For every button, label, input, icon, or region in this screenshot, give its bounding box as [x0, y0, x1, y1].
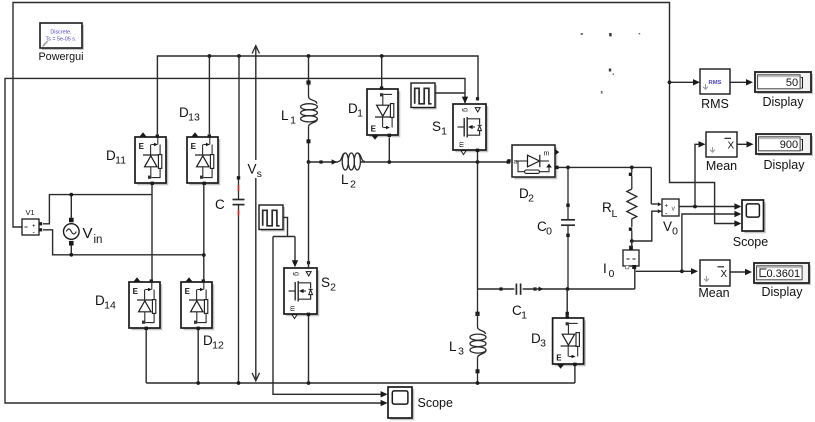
node top bus / L1	[307, 54, 311, 58]
powergui block	[40, 23, 84, 50]
mean block Mean2	[700, 260, 730, 286]
junction border to RMS	[668, 80, 672, 84]
wire Mean2 to Display3	[730, 269, 752, 275]
svg-text:Ts = 5e-05 s.: Ts = 5e-05 s.	[45, 37, 76, 43]
display Display2	[756, 134, 813, 156]
svg-text:]: ]	[801, 77, 804, 89]
label Scope1	[418, 396, 453, 410]
node top bus / D13	[208, 54, 212, 58]
node C0 bottom / D3 top	[566, 287, 570, 291]
voltage measurement V1	[22, 219, 42, 237]
capacitor C1	[499, 284, 536, 295]
svg-text:a: a	[514, 159, 518, 166]
wire bottom bus (negative rail)	[146, 382, 575, 384]
node C bottom	[237, 381, 241, 385]
node RL bottom / V0-	[630, 239, 634, 243]
wire D1 bottom	[388, 138, 390, 163]
node top bus / C	[237, 54, 241, 58]
svg-text:0: 0	[672, 226, 678, 238]
diode D3	[553, 315, 586, 368]
node V0out to Mean1	[693, 205, 697, 209]
svg-text:V: V	[83, 225, 93, 242]
mosfet S2	[284, 261, 319, 319]
diode D11	[135, 132, 168, 185]
label Vin	[83, 225, 103, 246]
svg-text:11: 11	[115, 155, 126, 167]
svg-text:Scope: Scope	[418, 396, 453, 410]
node C0 top	[566, 166, 570, 170]
svg-text:2: 2	[330, 282, 336, 294]
node RL top	[630, 166, 634, 170]
node L3 bottom	[476, 381, 480, 385]
diode D13	[187, 132, 220, 185]
label Mean1	[706, 159, 737, 173]
svg-text:m: m	[459, 142, 466, 148]
svg-text:E: E	[556, 354, 562, 363]
node top bus / D1	[380, 54, 384, 58]
mosfet S1	[453, 97, 488, 155]
label D14	[95, 293, 116, 312]
capacitor C	[233, 176, 245, 383]
svg-text:RMS: RMS	[709, 80, 722, 86]
resistor RL	[627, 167, 637, 241]
svg-text:C: C	[215, 197, 225, 212]
wire V1-output feedback loop (left border, top border, right drop to Scope)	[13, 3, 741, 228]
svg-text:0.3601: 0.3601	[766, 268, 800, 280]
wire border to RMS input	[670, 79, 701, 85]
wire top bus (DC positive rail)	[157, 56, 478, 134]
wire P2 to S2 gate	[292, 237, 298, 268]
wire D1 top	[381, 56, 383, 87]
svg-text:R: R	[602, 200, 612, 215]
svg-text:E: E	[139, 142, 145, 151]
svg-text:m: m	[290, 306, 297, 312]
node Vin- on rail	[202, 253, 206, 257]
wire D3 bottom	[574, 366, 576, 383]
label Powergui	[38, 51, 83, 63]
svg-text:V: V	[663, 219, 672, 234]
wire C top	[238, 56, 240, 176]
svg-text:in: in	[94, 234, 103, 246]
svg-text:S: S	[432, 119, 441, 134]
inductor L3	[470, 289, 486, 383]
current measurement I0	[623, 246, 639, 269]
svg-text:L: L	[281, 108, 289, 123]
svg-text:X: X	[728, 141, 735, 152]
svg-text:12: 12	[212, 340, 224, 352]
svg-text:13: 13	[188, 112, 200, 124]
mean block Mean1	[706, 132, 737, 157]
svg-text:E: E	[191, 142, 197, 151]
display Display3	[754, 263, 811, 285]
wire D13 top	[208, 56, 210, 134]
label V1	[26, 208, 35, 217]
speck group (scanner noise)	[581, 33, 640, 94]
wire V0+ stub	[651, 203, 658, 205]
label D1	[348, 101, 363, 120]
voltage measurement V0	[658, 199, 679, 218]
diode D12	[181, 277, 214, 330]
svg-text:X: X	[721, 269, 728, 280]
svg-text:S: S	[321, 275, 330, 290]
node S2 source on bus	[307, 381, 311, 385]
wire junction to L2	[309, 159, 339, 164]
wire V0- to RL bottom	[632, 211, 662, 241]
wire P1 to S1 gate	[435, 92, 465, 94]
label D3	[531, 331, 546, 350]
wire V0 output to Scope	[679, 203, 741, 209]
svg-text:900: 900	[780, 139, 798, 151]
svg-text:Display: Display	[762, 285, 804, 299]
wire S2 source	[308, 316, 310, 383]
svg-text:1: 1	[521, 310, 527, 322]
wire D11-D14 rail	[151, 184, 153, 281]
svg-text:1: 1	[357, 108, 363, 120]
label Display1	[763, 95, 805, 109]
display Display1	[755, 72, 813, 94]
diode D14	[129, 277, 162, 330]
diode D1	[367, 86, 400, 139]
wire L2 to D2	[361, 160, 511, 163]
svg-text:1: 1	[290, 115, 296, 127]
wire D12 bottom	[197, 330, 199, 383]
label D11	[106, 148, 126, 167]
label C1	[512, 303, 527, 322]
wire Vin- node	[43, 230, 204, 257]
scope Scope1	[388, 387, 414, 420]
svg-text:L: L	[341, 172, 349, 187]
wire P2 output	[273, 217, 295, 236]
node S1 source junction	[476, 160, 480, 164]
svg-text:14: 14	[104, 300, 116, 312]
inductor L1	[301, 80, 318, 162]
label RL	[602, 200, 618, 220]
svg-text:]: ]	[801, 139, 804, 151]
svg-text:2: 2	[350, 179, 356, 191]
label L2	[341, 172, 356, 191]
wire I0 bottom to bus	[634, 269, 636, 290]
wire D13-D12 rail	[203, 184, 205, 281]
svg-text:v: v	[672, 206, 676, 213]
diode D2 (horizontal)	[507, 145, 559, 179]
label Mean2	[698, 286, 729, 300]
svg-text:+: +	[665, 204, 669, 210]
wire Vin+ node	[43, 193, 152, 224]
pulse generator P1	[411, 83, 437, 110]
wire D2out corner down to V0+	[650, 167, 652, 204]
Vs measurement arrow	[252, 46, 259, 381]
voltage source Vin	[64, 218, 80, 246]
svg-text:E: E	[133, 287, 139, 296]
wire D3 top	[566, 289, 569, 317]
scope Scope2	[742, 200, 766, 233]
label D2	[519, 186, 534, 205]
svg-text:g: g	[462, 108, 469, 112]
svg-text:I: I	[603, 261, 607, 276]
node D1 bottom junction	[387, 160, 391, 164]
wire Mean1 to Display2	[737, 141, 754, 147]
svg-text:s: s	[257, 168, 262, 180]
label D13	[179, 105, 200, 124]
label S2	[321, 275, 336, 294]
wire RMS to Display1	[730, 79, 753, 85]
svg-text:Mean: Mean	[706, 159, 737, 173]
svg-text:2: 2	[528, 193, 534, 205]
svg-text:L: L	[449, 339, 457, 354]
svg-text:g: g	[293, 272, 300, 276]
wire V0 signal to Mean1	[695, 141, 706, 206]
label V0	[663, 219, 678, 238]
svg-text:E: E	[185, 287, 191, 296]
svg-text:50: 50	[786, 77, 798, 89]
label Display2	[764, 158, 806, 172]
svg-text:RMS: RMS	[701, 97, 729, 111]
rms block RMS	[700, 69, 730, 94]
wire S1 source	[477, 152, 479, 162]
svg-text:Scope: Scope	[733, 235, 768, 249]
wire I0 output	[636, 268, 698, 274]
svg-text:0: 0	[609, 268, 615, 280]
capacitor C0	[561, 167, 575, 289]
svg-text:m: m	[544, 151, 550, 158]
wire D14 bottom	[145, 330, 147, 383]
label Vs	[247, 160, 264, 180]
label Display3	[762, 285, 804, 299]
label RMS	[701, 97, 729, 111]
node D12 bottom	[196, 381, 200, 385]
wire pulse1 signal loop to Scope1 and S1 gate	[5, 78, 465, 406]
label S1	[432, 119, 447, 138]
svg-text:0: 0	[546, 226, 552, 238]
label L3	[449, 339, 464, 358]
wire D2 output	[559, 166, 652, 168]
svg-text:3: 3	[458, 346, 464, 358]
wire S2 drain	[308, 162, 310, 267]
node Vin+ on rail	[0, 0, 1, 1]
node L1/L2/S2	[307, 160, 311, 164]
label C	[215, 197, 225, 212]
svg-text:Mean: Mean	[698, 286, 729, 300]
label D12	[203, 333, 224, 352]
wire S1 source node to C1/L3 node	[477, 162, 479, 289]
svg-text:E: E	[371, 125, 377, 134]
wire mid bus right segment	[523, 287, 635, 292]
label Scope2	[733, 235, 768, 249]
svg-text:L: L	[612, 208, 618, 220]
svg-text:V: V	[248, 162, 257, 177]
arrow into S1 gate	[462, 97, 468, 104]
wire P2 to Scope1 input1	[273, 237, 388, 398]
label I0	[603, 261, 615, 280]
wire mid bus left segment	[478, 288, 515, 290]
wire I0 tap to Scope input2	[682, 211, 742, 271]
inductor L2	[338, 153, 365, 170]
svg-text:Display: Display	[763, 95, 805, 109]
svg-text:V1: V1	[26, 208, 35, 217]
label L1	[281, 108, 296, 127]
wire RL to I0	[631, 241, 633, 248]
label C0	[537, 219, 552, 238]
svg-text:Display: Display	[764, 158, 806, 172]
svg-text:1: 1	[441, 126, 447, 138]
svg-text:Powergui: Powergui	[38, 51, 83, 63]
pulse generator P2	[259, 205, 285, 232]
wire L1 top	[308, 56, 310, 86]
svg-text:Discrete,: Discrete,	[50, 29, 72, 35]
svg-text:3: 3	[540, 338, 546, 350]
